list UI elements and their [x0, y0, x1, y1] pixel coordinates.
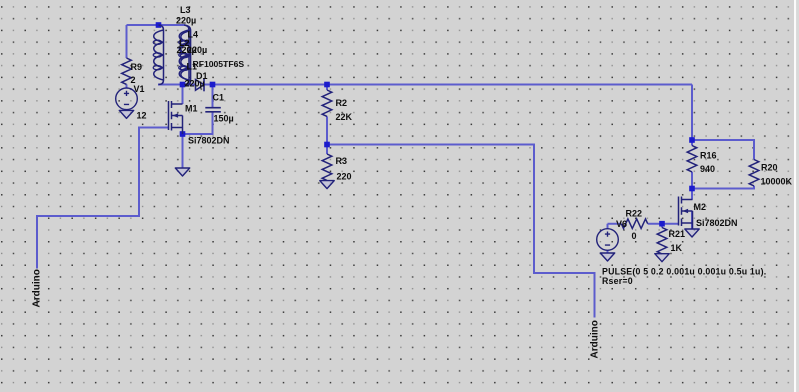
svg-text:R9: R9 — [131, 62, 143, 72]
svg-text:Si7802DN: Si7802DN — [188, 136, 230, 146]
svg-text:R3: R3 — [336, 156, 348, 166]
svg-text:940: 940 — [700, 164, 715, 174]
svg-text:0: 0 — [632, 231, 637, 241]
svg-text:220: 220 — [337, 172, 352, 182]
svg-text:12: 12 — [137, 111, 147, 121]
svg-text:PULSE(0 5 0.2 0.001u 0.001u 0.: PULSE(0 5 0.2 0.001u 0.001u 0.5u 1u). — [602, 267, 766, 277]
svg-text:Arduino: Arduino — [32, 269, 43, 307]
svg-text:Si7802DN: Si7802DN — [696, 218, 738, 228]
svg-text:22K: 22K — [336, 112, 353, 122]
svg-text:220µ: 220µ — [176, 15, 196, 25]
svg-text:L3: L3 — [180, 5, 191, 15]
svg-text:R22: R22 — [626, 209, 643, 219]
svg-text:10000K: 10000K — [761, 177, 793, 187]
svg-text:R21: R21 — [669, 229, 686, 239]
svg-text:V6: V6 — [616, 219, 627, 229]
svg-text:M2: M2 — [694, 202, 707, 212]
svg-text:R2: R2 — [336, 98, 348, 108]
svg-text:Arduino: Arduino — [590, 320, 601, 358]
svg-text:220µ: 220µ — [185, 79, 205, 89]
svg-text:RF1005TF6S: RF1005TF6S — [193, 59, 245, 69]
svg-text:220µ: 220µ — [187, 45, 207, 55]
svg-text:C1: C1 — [213, 93, 225, 103]
svg-text:1K: 1K — [671, 243, 683, 253]
svg-text:M1: M1 — [185, 104, 198, 114]
svg-text:Rser=0: Rser=0 — [602, 276, 633, 286]
svg-text:R16: R16 — [700, 151, 717, 161]
svg-text:R20: R20 — [761, 163, 778, 173]
svg-text:150µ: 150µ — [214, 114, 234, 124]
svg-text:V1: V1 — [134, 84, 145, 94]
